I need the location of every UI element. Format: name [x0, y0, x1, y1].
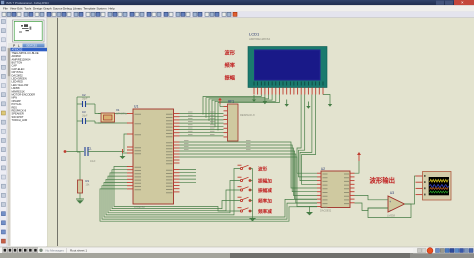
svg-text:Design: Design	[33, 7, 43, 11]
svg-text:LM358: LM358	[387, 214, 395, 218]
svg-text:Root sheet 1: Root sheet 1	[70, 249, 87, 253]
svg-text:LCD1: LCD1	[249, 32, 260, 37]
svg-text:View: View	[10, 7, 17, 11]
svg-text:Graph: Graph	[43, 7, 52, 11]
svg-text:Library: Library	[73, 7, 83, 11]
svg-text:Edit: Edit	[17, 7, 22, 11]
svg-text:波形: 波形	[225, 49, 236, 57]
svg-text:-: -	[390, 208, 391, 212]
svg-text:波形输出: 波形输出	[370, 176, 396, 185]
svg-text:C1: C1	[88, 147, 92, 151]
svg-text:C2: C2	[82, 93, 86, 97]
svg-text:R1: R1	[86, 179, 90, 183]
svg-text:Template: Template	[83, 7, 96, 11]
svg-text:TORCH_LDR: TORCH_LDR	[12, 118, 28, 122]
svg-text:频率加: 频率加	[258, 198, 272, 205]
svg-text:频率减: 频率减	[258, 208, 272, 215]
svg-text:Help: Help	[109, 7, 116, 11]
svg-text:CRYSTAL: CRYSTAL	[116, 112, 127, 115]
svg-text:AMPIRE128X64: AMPIRE128X64	[249, 37, 270, 41]
svg-text:+: +	[389, 200, 391, 204]
svg-text:DEVICES: DEVICES	[27, 44, 38, 47]
svg-text:ISIS 7 Professional - bxfsq.DS: ISIS 7 Professional - bxfsq.DSN	[6, 1, 49, 5]
svg-text:File: File	[3, 7, 8, 11]
svg-text:频率: 频率	[225, 61, 236, 69]
svg-text:X1: X1	[116, 108, 120, 112]
svg-text:30pF: 30pF	[82, 114, 88, 117]
svg-text:振幅: 振幅	[225, 74, 236, 82]
svg-text:波形: 波形	[258, 166, 268, 173]
svg-text:No Messages: No Messages	[46, 249, 65, 253]
svg-text:U3: U3	[390, 191, 394, 195]
svg-text:Source: Source	[53, 7, 63, 11]
svg-text:System: System	[97, 7, 108, 11]
svg-text:振幅加: 振幅加	[258, 178, 272, 185]
svg-text:U1: U1	[134, 105, 138, 109]
svg-text:L: L	[18, 44, 20, 48]
svg-text:振幅减: 振幅减	[258, 187, 272, 194]
svg-text:Tools: Tools	[24, 7, 32, 11]
svg-text:Debug: Debug	[63, 7, 72, 11]
svg-text:×: ×	[461, 0, 464, 5]
svg-text:U2: U2	[321, 167, 325, 171]
svg-text:RP1: RP1	[228, 100, 234, 104]
svg-text:RESPACK-8: RESPACK-8	[240, 113, 255, 117]
svg-text:C3: C3	[82, 110, 86, 114]
svg-text:30pF: 30pF	[82, 97, 88, 100]
svg-text:10uF: 10uF	[90, 160, 96, 163]
svg-text:DAC0832: DAC0832	[320, 209, 332, 213]
